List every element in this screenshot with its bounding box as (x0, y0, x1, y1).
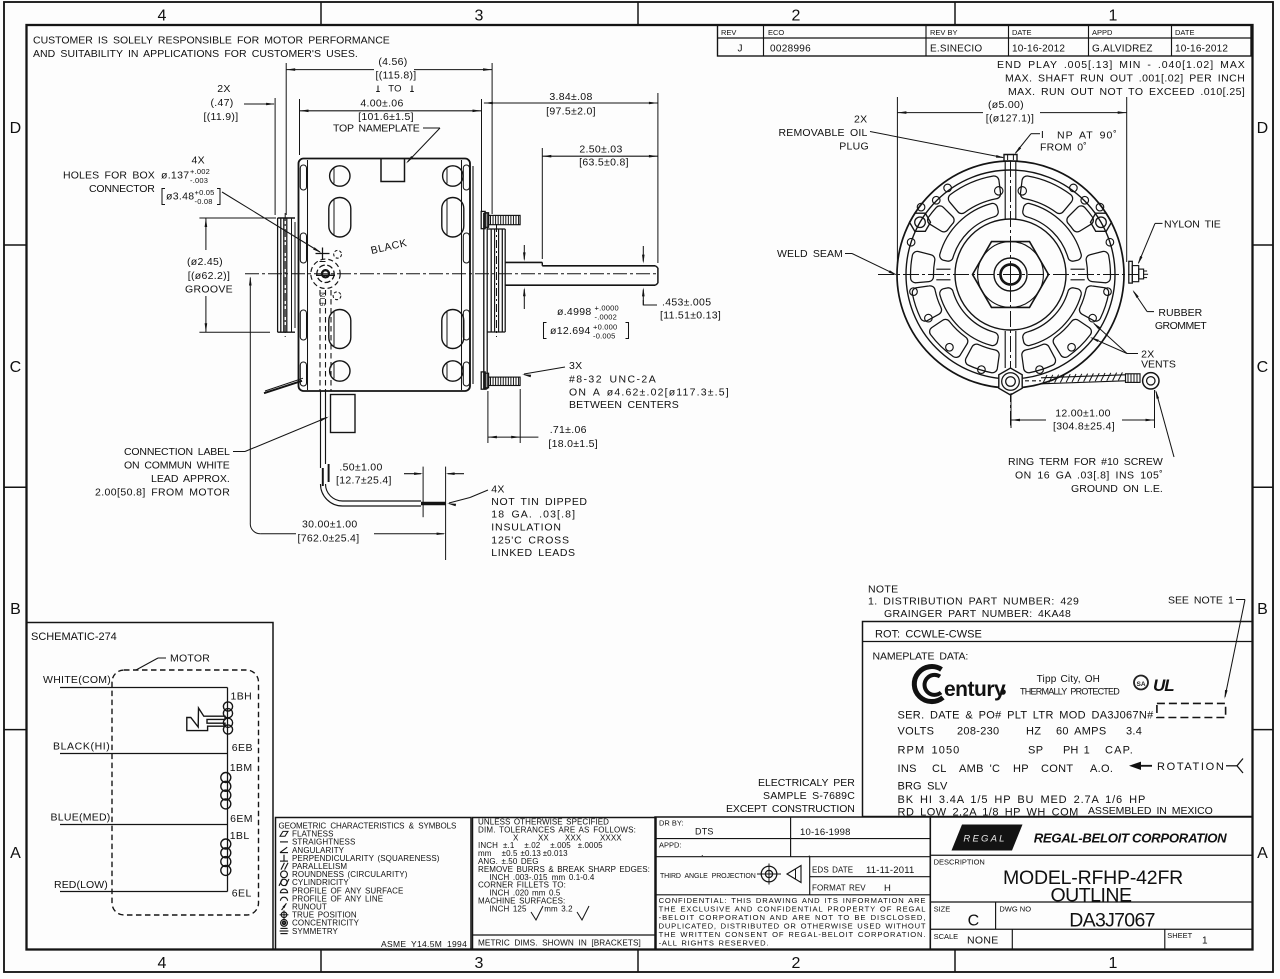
svg-text:NONE: NONE (967, 935, 999, 947)
svg-text:12.00±1.00: 12.00±1.00 (1055, 407, 1110, 419)
schematic box (27, 623, 274, 950)
svg-text:TOP NAMEPLATE: TOP NAMEPLATE (333, 123, 420, 135)
svg-text:ECO: ECO (768, 28, 784, 37)
svg-text:6EB: 6EB (232, 742, 253, 754)
dim 30.00 lead length (249, 277, 252, 286)
regal logo (952, 825, 1023, 851)
svg-text:(ø5.00): (ø5.00) (988, 99, 1024, 111)
svg-text:INCH 125: INCH 125 (489, 904, 527, 913)
svg-text:125'C CROSS: 125'C CROSS (491, 535, 569, 547)
svg-text:HZ: HZ (1026, 726, 1041, 738)
svg-text:A.O.: A.O. (1090, 763, 1113, 775)
svg-text:2X: 2X (854, 114, 867, 126)
svg-text:ROTATION: ROTATION (1157, 761, 1224, 773)
groove dim (2.45) (199, 217, 276, 219)
svg-text:30.00±1.00: 30.00±1.00 (302, 519, 357, 531)
svg-text:SA: SA (1136, 681, 1145, 688)
front view top tab (oil plug location) (1004, 155, 1017, 162)
rotation arrow (1129, 762, 1141, 770)
svg-text:4.00±.06: 4.00±.06 (360, 98, 403, 110)
lead wire exiting bottom left (264, 381, 302, 393)
svg-text:RED(LOW): RED(LOW) (54, 879, 108, 891)
svg-text:BRG SLV: BRG SLV (898, 781, 948, 793)
svg-text:2X: 2X (217, 83, 230, 95)
svg-text:ø.137: ø.137 (161, 170, 189, 182)
revision table (718, 25, 1252, 56)
svg-text:RPM 1050: RPM 1050 (898, 744, 960, 756)
svg-text:4X: 4X (192, 155, 205, 167)
svg-text:UL: UL (1153, 676, 1174, 695)
svg-text:[(115.8)]: [(115.8)] (375, 70, 416, 82)
svg-text:.: . (701, 848, 704, 858)
svg-text:10-16-1998: 10-16-1998 (800, 827, 851, 838)
svg-text:PH 1: PH 1 (1063, 744, 1090, 756)
svg-text:+0.05: +0.05 (195, 188, 215, 197)
svg-text:3: 3 (474, 8, 483, 25)
motor dashed boundary (112, 670, 259, 915)
bare lead tips (421, 502, 446, 505)
svg-text:DTS: DTS (695, 827, 714, 837)
dr by title sub-block (655, 817, 930, 950)
svg-text:END PLAY .005[.13] MIN - .040[: END PLAY .005[.13] MIN - .040[1.02] MAX (997, 59, 1245, 71)
svg-text:DATE: DATE (1012, 28, 1031, 37)
svg-text:REV BY: REV BY (930, 28, 958, 37)
svg-text:3X: 3X (569, 360, 582, 372)
mounting stud bottom (481, 372, 485, 389)
rubber grommet assembly at 3 oclock (1129, 261, 1133, 283)
svg-text:4: 4 (157, 955, 166, 972)
vent holes left column (330, 166, 350, 186)
svg-text:[(ø127.1)]: [(ø127.1)] (986, 113, 1035, 125)
front view shaft circles (994, 258, 1027, 291)
svg-text:A: A (1257, 845, 1268, 862)
svg-text:3.84±.08: 3.84±.08 (549, 91, 592, 103)
svg-text:-ALL RIGHTS RESERVED.: -ALL RIGHTS RESERVED. (659, 938, 769, 947)
svg-text:A: A (10, 845, 21, 862)
coil 1BH-6EB (223, 702, 232, 711)
svg-text:RING TERM FOR #10 SCREW: RING TERM FOR #10 SCREW (1008, 456, 1163, 468)
profile of surface symbol (280, 889, 287, 893)
svg-text:(ø2.45): (ø2.45) (187, 256, 223, 268)
front view through bolts (hex heads) (910, 213, 931, 231)
svg-text:FROM 0˚: FROM 0˚ (1040, 142, 1087, 154)
svg-text:B: B (1257, 601, 1268, 618)
svg-text:C: C (1257, 359, 1269, 376)
svg-text:WELD SEAM: WELD SEAM (777, 248, 843, 260)
svg-text:SEE NOTE 1: SEE NOTE 1 (1168, 595, 1234, 607)
svg-text:THIRD ANGLE PROJECTION: THIRD ANGLE PROJECTION (660, 873, 756, 880)
eds date / format rev (809, 857, 811, 895)
nylon tie label (1155, 222, 1163, 224)
tolerance box (473, 818, 657, 950)
front view hex nut (973, 242, 1049, 308)
dim shaft diameter .4998 (523, 245, 525, 260)
svg-text:1: 1 (1108, 8, 1117, 25)
dim shaft flat .453 (642, 246, 644, 262)
svg-text:(.47): (.47) (210, 97, 233, 109)
svg-text:ON 16 GA .03[.8] INS 105˚: ON 16 GA .03[.8] INS 105˚ (1015, 470, 1163, 482)
svg-text:ROT: CCWLE-CWSE: ROT: CCWLE-CWSE (875, 629, 982, 641)
svg-text:BETWEEN CENTERS: BETWEEN CENTERS (569, 399, 679, 411)
dim 12.00 ground lead (1010, 393, 1012, 428)
zone tick marks right (1253, 244, 1274, 246)
svg-text:ASSEMBLED IN MEXICO: ASSEMBLED IN MEXICO (1088, 805, 1213, 817)
svg-text:CONNECTION LABEL: CONNECTION LABEL (124, 446, 230, 458)
svg-text:RUBBER: RUBBER (1158, 307, 1202, 319)
svg-text:.50±1.00: .50±1.00 (339, 462, 382, 474)
front view center cross (1005, 274, 1017, 276)
ring terminal (1143, 373, 1159, 389)
svg-text:Tipp City, OH: Tipp City, OH (1037, 674, 1101, 685)
svg-text:NAMEPLATE DATA:: NAMEPLATE DATA: (873, 651, 969, 663)
dim 2.50 (541, 148, 543, 259)
rotated lead markings (320, 292, 327, 306)
svg-text:BLUE(MED): BLUE(MED) (51, 812, 111, 824)
concentricity symbol (281, 920, 288, 927)
svg-text:INS: INS (898, 763, 917, 775)
front view outer shell circle (897, 161, 1124, 388)
svg-text:10-16-2012: 10-16-2012 (1175, 44, 1228, 55)
svg-text:ON A ø4.62±.02[ø117.3±.5]: ON A ø4.62±.02[ø117.3±.5] (569, 387, 729, 399)
svg-text:2: 2 (791, 955, 800, 972)
svg-text:THERMALLY PROTECTED: THERMALLY PROTECTED (1020, 687, 1120, 697)
svg-text:mm 3.2: mm 3.2 (544, 904, 573, 913)
svg-text:REGAL-BELOIT CORPORATION: REGAL-BELOIT CORPORATION (1034, 831, 1227, 846)
svg-text:HOLES FOR BOX: HOLES FOR BOX (63, 170, 155, 182)
svg-text:VENTS: VENTS (1141, 359, 1176, 371)
svg-text:EDS DATE: EDS DATE (812, 866, 853, 875)
top nameplate tab (381, 159, 405, 182)
left hub with groove (rear end) (278, 217, 295, 219)
svg-text:3: 3 (474, 955, 483, 972)
svg-text:±.0005: ±.0005 (578, 841, 603, 850)
svg-text:MAX. SHAFT RUN OUT .001[.02] P: MAX. SHAFT RUN OUT .001[.02] PER INCH (1005, 73, 1245, 85)
svg-text:+0.000: +0.000 (593, 323, 617, 332)
svg-text:ELECTRICALY PER: ELECTRICALY PER (758, 777, 855, 789)
box connector hole inner (317, 265, 334, 282)
metric dims divider (473, 934, 657, 936)
svg-text:+.002: +.002 (190, 167, 210, 176)
svg-text:GROUND ON L.E.: GROUND ON L.E. (1071, 483, 1163, 495)
dim .71 stud length (487, 391, 489, 443)
small connector holes and cross (316, 253, 330, 255)
front view bottom oil plug hex (999, 368, 1022, 395)
svg-text:XXXX: XXXX (600, 833, 622, 842)
svg-text:[304.8±25.4]: [304.8±25.4] (1053, 420, 1115, 432)
parallelism symbol (281, 863, 284, 870)
svg-text:SYMMETRY: SYMMETRY (292, 927, 339, 936)
perpendicularity symbol (280, 860, 288, 862)
csa mark (1134, 676, 1148, 690)
svg-text:(4.56): (4.56) (378, 56, 407, 68)
svg-text:SP: SP (1028, 744, 1043, 756)
front view centerline vertical (1010, 161, 1012, 426)
svg-text:18 GA. .03[.8]: 18 GA. .03[.8] (491, 509, 575, 521)
svg-text:NOTE: NOTE (868, 584, 898, 596)
svg-text:1BH: 1BH (231, 691, 253, 703)
svg-text:APPD: APPD (1092, 28, 1113, 37)
svg-text:-0.08: -0.08 (195, 197, 213, 206)
svg-text:G.ALVIDREZ: G.ALVIDREZ (1092, 44, 1153, 55)
svg-text:DWG NO: DWG NO (999, 905, 1031, 914)
svg-text:0028996: 0028996 (770, 44, 811, 55)
svg-text:SIZE: SIZE (934, 905, 951, 914)
svg-text:AND SUITABILITY IN APPLICATION: AND SUITABILITY IN APPLICATIONS FOR CUST… (33, 48, 358, 60)
svg-text:4: 4 (157, 8, 166, 25)
century logo (914, 667, 943, 702)
svg-text:ON COMMUN WHITE: ON COMMUN WHITE (124, 460, 230, 472)
svg-text:.453±.005: .453±.005 (662, 297, 711, 309)
svg-text:C: C (968, 913, 980, 930)
lead bundle curve to horizontal (321, 484, 422, 506)
svg-text:[(11.9)]: [(11.9)] (204, 111, 239, 123)
svg-text:2.50±.03: 2.50±.03 (579, 143, 622, 155)
roundness symbol (281, 871, 288, 878)
zone tick marks top (320, 2, 322, 25)
front view centerline horizontal (878, 274, 1138, 276)
profile of line symbol (280, 897, 287, 901)
svg-text:[12.7±25.4]: [12.7±25.4] (336, 475, 392, 487)
front view outer vent slots (1020, 176, 1072, 214)
main winding vertical wire (227, 688, 229, 892)
true position symbol (281, 912, 287, 918)
svg-text:CUSTOMER IS SOLELY RESPONSIBLE: CUSTOMER IS SOLELY RESPONSIBLE FOR MOTOR… (33, 35, 390, 47)
angularity symbol (280, 852, 288, 854)
motor leads below body (320, 391, 322, 468)
svg-text:BLACK(HI): BLACK(HI) (53, 741, 110, 753)
svg-text:6EM: 6EM (230, 813, 253, 825)
svg-text:6EL: 6EL (232, 888, 252, 900)
svg-text:10-16-2012: 10-16-2012 (1012, 44, 1065, 55)
svg-text:[(ø62.2)]: [(ø62.2)] (188, 270, 230, 282)
svg-text:D: D (1257, 120, 1269, 137)
svg-text:INSULATION: INSULATION (491, 522, 561, 534)
svg-text:208-230: 208-230 (957, 726, 999, 738)
svg-text:60 AMPS: 60 AMPS (1056, 726, 1106, 738)
motor body side view shell (299, 159, 471, 392)
svg-text:METRIC DIMS. SHOWN IN [BRACKET: METRIC DIMS. SHOWN IN [BRACKETS] (478, 939, 641, 948)
right hub (front end) plates (483, 213, 485, 389)
hex inscribed circle (978, 242, 1044, 308)
svg-text:11-11-2011: 11-11-2011 (866, 865, 914, 876)
svg-text:REGAL: REGAL (963, 834, 1006, 845)
svg-text:[101.6±1.5]: [101.6±1.5] (358, 111, 414, 123)
geometric characteristics box (276, 818, 472, 950)
svg-text:.71±.06: .71±.06 (550, 424, 587, 436)
flatness symbol (280, 831, 288, 836)
shaft (505, 261, 542, 263)
end ring slots left rim (300, 165, 306, 190)
svg-text:1BL: 1BL (230, 830, 250, 842)
svg-text:4X: 4X (491, 484, 504, 496)
svg-text:NOT TIN DIPPED: NOT TIN DIPPED (491, 496, 587, 508)
zone tick marks left (4, 244, 27, 246)
svg-text:[97.5±2.0]: [97.5±2.0] (546, 106, 596, 118)
svg-text:SCALE: SCALE (934, 932, 959, 941)
svg-text:NP AT 90˚: NP AT 90˚ (1057, 130, 1117, 142)
svg-text:3.4: 3.4 (1126, 726, 1142, 738)
front view rim inner circle (906, 170, 1115, 379)
svg-text:ø3.48: ø3.48 (166, 191, 194, 203)
svg-text:CL: CL (932, 763, 947, 775)
svg-text:B: B (10, 601, 21, 618)
svg-text:BK HI 3.4A 1/5 HP BU MED 2.7A: BK HI 3.4A 1/5 HP BU MED 2.7A 1/6 HP (898, 794, 1146, 806)
svg-text:J: J (738, 44, 743, 55)
mounting stud top (481, 211, 485, 228)
dim diameter 5.00 (896, 97, 898, 263)
svg-text:+.0000: +.0000 (595, 304, 619, 313)
dim 4.00 body length (299, 99, 301, 155)
svg-text:ø12.694: ø12.694 (550, 325, 591, 337)
svg-text:1BM: 1BM (230, 762, 253, 774)
thermal protector (187, 708, 225, 731)
svg-text:REV: REV (721, 28, 736, 37)
svg-text:C: C (10, 359, 22, 376)
svg-text:OUTLINE: OUTLINE (1050, 885, 1132, 907)
regal-beloit title block (930, 817, 1252, 950)
svg-text:GROMMET: GROMMET (1155, 320, 1207, 332)
svg-text:TO: TO (388, 84, 402, 95)
svg-text:DA3J7067: DA3J7067 (1069, 910, 1154, 932)
rot row divider (863, 641, 1253, 643)
svg-text:CONT: CONT (1041, 763, 1073, 775)
svg-text:MOTOR: MOTOR (170, 653, 210, 665)
svg-text:SAMPLE S-7689C: SAMPLE S-7689C (763, 790, 855, 802)
front view small holes near top rib (995, 187, 1003, 195)
svg-text:ASME Y14.5M 1994: ASME Y14.5M 1994 (381, 939, 467, 949)
box connector center dark hub (322, 270, 329, 277)
svg-text:SHEET: SHEET (1167, 931, 1192, 940)
projection cone symbol (787, 866, 801, 883)
coil 1BM-6EM (221, 773, 231, 783)
svg-text:CAP.: CAP. (1105, 744, 1133, 756)
svg-text:SCHEMATIC-274: SCHEMATIC-274 (31, 631, 117, 643)
svg-text:[18.0±1.5]: [18.0±1.5] (548, 438, 598, 450)
connection label rectangle (331, 395, 356, 433)
svg-text:APPD:: APPD: (659, 841, 682, 850)
svg-text:REMOVABLE OIL: REMOVABLE OIL (779, 127, 868, 139)
dashed mod box (1157, 703, 1226, 717)
end ring slots right rim (463, 165, 469, 190)
svg-text:#8-32 UNC-2A: #8-32 UNC-2A (569, 374, 656, 386)
svg-text:1. DISTRIBUTION PART NUMBER:: 1. DISTRIBUTION PART NUMBER: 429 (868, 596, 1079, 608)
svg-text:2.00[50.8] FROM MOTOR: 2.00[50.8] FROM MOTOR (95, 487, 230, 499)
body end-ring lip right (472, 166, 474, 384)
front view inner vent slots (1023, 203, 1082, 261)
svg-text:[11.51±0.13]: [11.51±0.13] (660, 310, 721, 322)
svg-text:MAX. RUN OUT NOT TO EXCEED .01: MAX. RUN OUT NOT TO EXCEED .010[.25] (1008, 86, 1245, 98)
crimp sleeve (1126, 374, 1141, 383)
svg-text:-.0002: -.0002 (595, 313, 617, 322)
svg-text:FORMAT REV: FORMAT REV (812, 884, 866, 893)
svg-text:2: 2 (791, 8, 800, 25)
NP AT 90 note (1041, 131, 1043, 138)
svg-text:-.003: -.003 (190, 176, 208, 185)
svg-text:DR BY:: DR BY: (659, 819, 684, 828)
svg-text:[63.5±0.8]: [63.5±0.8] (579, 156, 629, 168)
svg-text:SER. DATE & PO# PLT LTR MOD DA: SER. DATE & PO# PLT LTR MOD DA3J067N# (898, 710, 1155, 722)
front view bearing boss circle (955, 219, 1066, 330)
svg-text:E.SINECIO: E.SINECIO (930, 44, 982, 55)
svg-text:1: 1 (1202, 936, 1208, 947)
front view rib lines (1004, 162, 1006, 219)
nameplate data box (863, 622, 1253, 817)
svg-text:DATE: DATE (1175, 28, 1194, 37)
dim (4.56) overall (285, 63, 287, 215)
coil 1BL-6EL (221, 839, 231, 849)
svg-text:±0.013: ±0.013 (543, 849, 568, 858)
body inner rim line right (461, 160, 463, 390)
svg-text:VOLTS: VOLTS (898, 726, 935, 738)
svg-text:[762.0±25.4]: [762.0±25.4] (298, 533, 360, 545)
symmetry symbol (280, 927, 287, 929)
svg-text:D: D (10, 120, 22, 137)
svg-text:WHITE(COM): WHITE(COM) (43, 674, 111, 686)
runout symbol (282, 903, 287, 910)
vent holes right column (443, 166, 463, 186)
svg-text:-0.005: -0.005 (593, 332, 615, 341)
front view rim rivet holes (1070, 184, 1078, 192)
svg-text:1: 1 (1108, 955, 1117, 972)
svg-text:GRAINGER PART NUMBER: 4KA48: GRAINGER PART NUMBER: 4KA48 (884, 608, 1071, 620)
straightness symbol (280, 841, 288, 843)
surface finish check symbols (531, 906, 543, 920)
body inner rim line left (307, 160, 309, 390)
svg-text:HP: HP (1013, 763, 1029, 775)
svg-text:EXCEPT CONSTRUCTION: EXCEPT CONSTRUCTION (726, 803, 855, 815)
svg-text:DESCRIPTION: DESCRIPTION (934, 858, 985, 867)
svg-text:entury: entury (944, 678, 1006, 701)
box connector hole dashed circle (311, 259, 340, 288)
svg-text:H: H (884, 883, 891, 894)
svg-text:LEAD APPROX.: LEAD APPROX. (151, 473, 230, 485)
svg-text:ø.4998: ø.4998 (557, 306, 592, 318)
svg-text:AMB 'C: AMB 'C (959, 763, 1000, 775)
svg-text:GROOVE: GROOVE (185, 284, 233, 296)
svg-text:LINKED LEADS: LINKED LEADS (491, 547, 575, 559)
dim 3.84 shaft extension (657, 93, 659, 263)
svg-text:NYLON TIE: NYLON TIE (1164, 219, 1221, 231)
zone tick marks bottom (320, 950, 322, 973)
svg-text:CONNECTOR: CONNECTOR (89, 183, 155, 195)
svg-text:PLUG: PLUG (839, 141, 869, 153)
BLACK label rotated (370, 237, 409, 257)
cylindricity symbol (281, 879, 287, 885)
ground wire from oil plug (1025, 380, 1041, 382)
motor leads dashed inside body (319, 290, 321, 391)
side view centerline (245, 273, 659, 275)
